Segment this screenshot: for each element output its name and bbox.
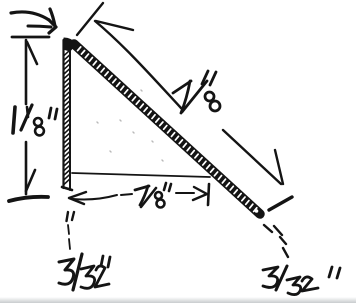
label 3/32 bottom-left : slash	[73, 254, 82, 290]
bottom label double prime	[164, 183, 171, 191]
label 1-1/8 inch : fraction tick	[27, 107, 28, 117]
dashed leader bottom-left	[68, 225, 70, 249]
bottom label fraction slash	[141, 188, 156, 207]
hypotenuse band white hatch holes	[78, 47, 257, 212]
top-left arrow shaft lower stroke	[28, 26, 51, 27]
vertical bar top solid apex	[63, 38, 76, 51]
bottom label digit 8	[155, 192, 162, 199]
label 3/32 bottom-right : slash	[276, 266, 287, 290]
dimension line 1-1/8 vertical upper segment	[25, 40, 28, 104]
hypotenuse dimension arrow end tick	[269, 197, 292, 210]
bottom dimension dash	[121, 194, 132, 195]
bottom label 7 stem	[140, 186, 148, 205]
label 1-1/8 inch : double prime	[49, 108, 57, 119]
vertical bar left edge	[62, 40, 64, 188]
label 3/32 bottom-left : digit 2	[95, 266, 109, 287]
ditto ticks below bar	[67, 212, 75, 221]
bottom label 7 top bar	[135, 186, 149, 190]
vertical bar bottom foot	[62, 187, 72, 190]
hypotenuse label 7 top bar	[173, 81, 191, 93]
scanner edge shadow bottom	[0, 297, 356, 303]
dimension arrow barb bottom	[26, 170, 35, 191]
label 3/32 bottom-left : digit 3	[81, 266, 95, 288]
bottom dimension shaft wavy	[73, 195, 117, 200]
extension line bottom of 1-1/8 dimension	[9, 197, 48, 201]
label 1-1/8 inch : digit 1	[13, 107, 15, 133]
label 3/32 bottom-right : digit 3	[263, 267, 278, 287]
hypotenuse dimension arrow shaft upper	[95, 21, 181, 108]
label 3/32 bottom-left : double prime	[101, 256, 110, 267]
dimension arrow barb top	[27, 42, 37, 64]
label 1-1/8 inch : fraction slash	[21, 105, 32, 130]
hypotenuse label double prime	[202, 71, 216, 85]
label 3/32 bottom-left : digit 3	[59, 259, 74, 284]
label 3/32 bottom-right : digit 2	[302, 277, 318, 291]
label 3/32 bottom-right : double prime	[329, 267, 340, 278]
bottom dimension right tick	[208, 184, 209, 205]
bottom dimension left arrow	[69, 192, 86, 204]
hypotenuse dimension arrow end barb	[275, 150, 283, 184]
base line of triangle	[72, 173, 210, 177]
top-left arrow shaft upper stroke	[11, 12, 49, 20]
vertical bar right edge	[69, 45, 71, 190]
hypotenuse dimension arrow shaft lower	[223, 130, 281, 184]
dimension line 1-1/8 vertical lower segment	[25, 142, 28, 194]
paper specks	[97, 90, 163, 161]
extension line top of 1-1/8 dimension	[12, 36, 49, 39]
dashed leader bottom-right	[264, 225, 288, 257]
hypotenuse label 7 stem	[181, 81, 190, 113]
hypotenuse label digit 8	[205, 92, 214, 101]
hypotenuse label fraction slash	[182, 81, 207, 112]
hypotenuse band end cap hole	[255, 209, 259, 213]
vertical bar hatch ticks	[64, 50, 70, 184]
apex leader line	[77, 3, 103, 35]
hypotenuse band body	[74, 44, 260, 214]
label 1-1/8 inch : digit 8	[34, 118, 42, 126]
hypotenuse dimension arrow head barb	[96, 21, 133, 30]
top-left arrow upper barb	[50, 9, 55, 26]
bottom dimension dash right	[176, 192, 194, 194]
bottom dimension right arrow	[193, 187, 207, 200]
top-left arrow head	[49, 20, 56, 33]
label 3/32 bottom-right : digit 3	[287, 277, 301, 295]
